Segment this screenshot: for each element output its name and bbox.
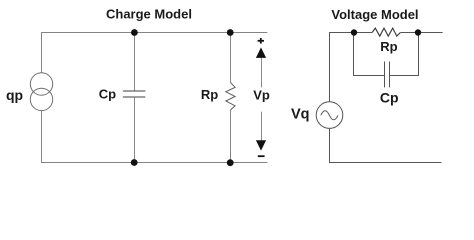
polarity plus sign (258, 38, 264, 44)
wire: Vp upper arrow stem (261, 58, 263, 88)
wire: Vp lower arrow stem (261, 112, 263, 141)
wire: left branch above current source (41, 33, 43, 73)
resistor Rp (voltage model) (372, 28, 400, 36)
node: right junction of RC pair (415, 29, 421, 35)
wire: voltage model top rail right segment (400, 32, 442, 34)
wire: Cp branch lower lead (134, 97, 136, 163)
current source qp (30, 73, 52, 111)
node: bottom junction of Cp branch (131, 159, 138, 166)
svg-text:Vp: Vp (253, 88, 270, 103)
polarity minus sign (258, 155, 265, 157)
svg-text:Rp: Rp (380, 39, 397, 54)
node: left junction of RC pair (351, 29, 357, 35)
svg-text:Cp: Cp (99, 86, 116, 101)
svg-text:qp: qp (6, 87, 23, 103)
wire: charge model top rail (41, 32, 267, 34)
capacitor Cp (charge model) (123, 91, 146, 97)
wire: voltage source lower lead and bottom rail (330, 128, 442, 162)
wire: charge model bottom rail (41, 162, 267, 164)
wire: Rp branch lower lead (230, 110, 232, 163)
voltage source Vq (316, 102, 343, 129)
node: top junction of Rp branch (227, 29, 234, 36)
wire: left branch below current source (41, 111, 43, 163)
svg-text:Charge Model: Charge Model (106, 6, 192, 21)
svg-text:Vq: Vq (291, 106, 310, 122)
resistor Rp (charge model) (226, 83, 235, 110)
svg-text:Rp: Rp (201, 87, 218, 102)
node: top junction of Cp branch (131, 29, 138, 36)
capacitor Cp (voltage model) (385, 62, 390, 88)
wire: Cp parallel branch right drop (390, 33, 419, 76)
arrow: Vp down arrowhead (256, 140, 266, 150)
svg-text:Cp: Cp (380, 89, 399, 105)
node: bottom junction of Rp branch (227, 159, 234, 166)
wire: Rp branch upper lead (230, 33, 232, 83)
wire: Cp branch upper lead (134, 33, 136, 92)
svg-text:Voltage Model: Voltage Model (331, 7, 418, 22)
wire: voltage model top rail left segment (330, 33, 373, 102)
wire: Cp parallel branch left drop (354, 33, 385, 76)
arrow: Vp up arrowhead (256, 47, 266, 58)
